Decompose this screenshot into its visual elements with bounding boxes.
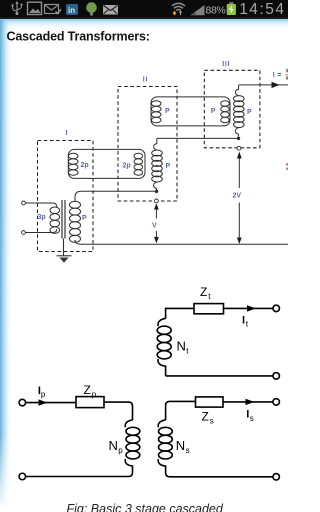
wire t bottom — [166, 375, 273, 377]
svg-text:Z: Z — [200, 285, 207, 299]
svg-text:Fig: Basic 3 stage cascaded: Fig: Basic 3 stage cascaded — [67, 502, 224, 512]
status icon gallery — [28, 2, 42, 14]
terminal s2 — [273, 474, 280, 481]
wire Zs to terminal — [223, 401, 273, 403]
svg-text:P: P — [211, 108, 216, 115]
winding link L2 (P-P racetrack outline) — [151, 97, 230, 126]
box II (dashed stage II enclosure) — [118, 87, 177, 202]
svg-text:s: s — [250, 414, 254, 423]
node B tap circle — [237, 146, 241, 150]
wire Zp to Np — [104, 402, 133, 420]
svg-text:s: s — [186, 446, 190, 455]
status icon linkedin — [66, 4, 78, 15]
coil P stage III secondary — [234, 96, 245, 128]
arrowhead Is — [246, 399, 255, 405]
wire bottom bus — [75, 240, 288, 244]
wire input bottom — [26, 229, 57, 233]
coil P right (stage III primary winding) — [221, 101, 230, 123]
inductor Np — [125, 420, 132, 427]
terminal s1 — [273, 399, 280, 406]
overscroll glow left — [0, 20, 12, 505]
svg-text:N: N — [109, 438, 118, 453]
wire input top — [26, 203, 57, 207]
winding link L1 (2p-2p racetrack outline) — [68, 149, 145, 178]
coil 2p left (stage I excitation winding) — [68, 153, 78, 175]
svg-text:88%: 88% — [206, 5, 226, 17]
svg-text:p: p — [41, 390, 46, 399]
schematic labels (blue) — [38, 61, 282, 230]
svg-text:N: N — [177, 339, 186, 354]
svg-text:I: I — [242, 315, 245, 327]
status icon USB — [13, 2, 22, 12]
svg-text:Cascaded Transformers:: Cascaded Transformers: — [7, 30, 150, 44]
svg-text:II: II — [143, 77, 148, 84]
terminal input bottom — [22, 231, 26, 235]
arrowhead It — [247, 305, 256, 311]
node A junction dot — [155, 190, 158, 193]
circuit p: terminal p1 — [19, 399, 26, 406]
core stage I (two bars) — [62, 200, 65, 239]
status icon green pin — [86, 2, 97, 13]
svg-text:2V: 2V — [233, 193, 242, 200]
svg-text:14:54: 14:54 — [239, 1, 285, 18]
node A tap circle — [155, 199, 159, 203]
svg-text:I: I — [66, 130, 68, 137]
arrowhead Ip — [39, 399, 48, 405]
lower circuit labels — [38, 285, 254, 455]
svg-text:P: P — [82, 215, 87, 222]
status icon signal triangle — [191, 5, 205, 15]
resistor Zt — [194, 304, 224, 314]
overscroll glow top — [0, 19, 288, 30]
svg-text:in: in — [68, 6, 75, 15]
output fraction fragment (clipped at edge) — [286, 69, 288, 73]
V measuring arrow — [155, 208, 157, 238]
inductor Ns — [158, 420, 165, 427]
svg-text:=: = — [277, 72, 281, 79]
svg-text:I: I — [273, 72, 275, 79]
resistor Zs — [196, 397, 224, 407]
resistor Zp — [76, 397, 104, 408]
svg-text:Z: Z — [202, 410, 209, 424]
output arrowhead — [272, 82, 280, 88]
svg-text:Z: Z — [84, 383, 91, 397]
svg-text:2p: 2p — [81, 162, 89, 169]
2V measuring arrow — [238, 157, 240, 239]
coil 2p right (stage II primary winding) — [134, 153, 143, 175]
coil P left (stage II tertiary winding) — [151, 101, 161, 123]
node B junction dot — [237, 137, 240, 140]
coil 3p (stage I primary) — [50, 207, 60, 233]
svg-text:P: P — [247, 109, 252, 116]
terminal input top — [22, 201, 26, 205]
wire p in — [26, 402, 77, 404]
svg-text:p: p — [118, 446, 123, 455]
svg-text:V: V — [152, 223, 157, 230]
svg-text:s: s — [210, 417, 214, 426]
status icon envelope — [103, 5, 118, 15]
wire stage II secondary top to node B — [154, 138, 238, 150]
red equals fragment (clipped at right edge) — [286, 163, 288, 165]
svg-text:p: p — [92, 390, 97, 399]
wire stage III secondary top to output — [235, 85, 288, 96]
terminal p2 — [19, 473, 26, 480]
status icon mail-check — [45, 5, 59, 14]
terminal t2 — [273, 373, 280, 380]
svg-text:P: P — [166, 163, 171, 170]
wire stage II secondary bottom to node A — [154, 182, 157, 191]
status bar background — [0, 0, 288, 19]
coil P stage II secondary — [152, 150, 163, 182]
coil P stage I secondary — [70, 201, 81, 242]
ground — [63, 239, 65, 256]
box III (dashed stage III enclosure) — [204, 70, 260, 148]
wire stage I secondary top to node A — [75, 191, 155, 201]
svg-text:2p: 2p — [123, 163, 131, 170]
inductor Nt — [158, 318, 166, 326]
svg-text:3p: 3p — [38, 214, 46, 221]
svg-text:P: P — [165, 108, 170, 115]
circuit t: wire top — [166, 308, 194, 318]
circuit s: wire Ns top to Zs — [166, 401, 196, 420]
svg-text:III: III — [222, 61, 230, 68]
svg-text:N: N — [176, 438, 185, 453]
terminal t1 — [273, 305, 280, 312]
status battery — [229, 2, 233, 4]
status icon wifi — [172, 3, 185, 10]
box I (dashed stage I enclosure) — [38, 141, 94, 252]
wire Zt to terminal — [224, 307, 274, 309]
wire stage III secondary bottom to node B — [235, 127, 238, 137]
